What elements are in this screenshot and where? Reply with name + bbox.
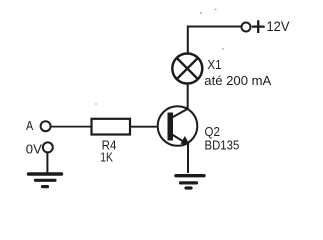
svg-text:12V: 12V xyxy=(267,18,291,34)
svg-text:até 200 mA: até 200 mA xyxy=(204,73,271,88)
svg-text:0V: 0V xyxy=(26,142,43,156)
svg-text:Q2: Q2 xyxy=(205,125,220,139)
svg-text:X1: X1 xyxy=(207,57,221,72)
svg-text:A: A xyxy=(26,119,34,133)
svg-text:1K: 1K xyxy=(100,151,113,165)
svg-text:BD135: BD135 xyxy=(205,139,240,153)
